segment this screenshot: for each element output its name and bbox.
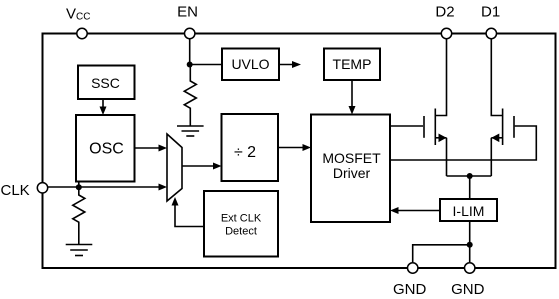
wire: junction to left GND (413, 245, 470, 262)
outer boundary box (43, 34, 556, 269)
svg-text:TEMP: TEMP (333, 56, 372, 72)
svg-text:÷ 2: ÷ 2 (234, 144, 256, 161)
svg-text:CLK: CLK (1, 182, 30, 199)
svg-text:D1: D1 (481, 3, 500, 20)
wire: OSC bottom to CLK line (78, 182, 80, 188)
block Ext CLK Detect (204, 191, 278, 257)
block TEMP (324, 49, 380, 81)
svg-text:SSC: SSC (91, 75, 120, 91)
svg-text:GND: GND (393, 281, 427, 298)
svg-text:EN: EN (177, 3, 198, 20)
block UVLO (222, 49, 279, 81)
block MOSFET Driver (311, 115, 390, 223)
svg-text:Ext CLK: Ext CLK (221, 213, 262, 225)
wire: mux output to divide-by-2 (182, 165, 219, 167)
svg-text:GND: GND (451, 281, 485, 298)
pin GND (left) (408, 263, 418, 273)
wire: sources join (447, 175, 492, 177)
svg-text:MOSFET: MOSFET (322, 150, 381, 166)
wire: Ext CLK Detect to mux (175, 200, 204, 227)
wire: junction down to I-LIM (469, 176, 471, 199)
wire: OSC to mux (135, 147, 165, 149)
wire: CLK to mux (48, 186, 164, 188)
pin D2 (441, 28, 451, 38)
block OSC (76, 115, 135, 182)
block SSC (78, 66, 135, 100)
ground G2 (below R2) (66, 245, 93, 256)
node: CLK junction (76, 184, 82, 190)
wire: I-LIM to driver arrow (394, 210, 441, 212)
block I-LIM (440, 199, 497, 221)
pin D1 (486, 28, 496, 38)
wire: EN stub down to junction (189, 39, 191, 65)
pin VCC (77, 28, 87, 38)
wire: SSC to OSC arrow (102, 99, 104, 112)
svg-text:UVLO: UVLO (231, 56, 269, 72)
wire: driver gate1 lead (390, 125, 423, 127)
wire: driver gate2 lead (to right MOSFET) (390, 126, 536, 160)
resistor R2 (CLK pulldown) (73, 187, 85, 244)
transistor Q1 (right MOSFET) (491, 39, 514, 176)
mux M1 (167, 134, 182, 201)
svg-text:D2: D2 (435, 3, 454, 20)
wire: divide-by-2 to MOSFET driver (278, 147, 308, 149)
resistor R1 (EN pulldown) (184, 65, 196, 127)
wire: TEMP down to driver (351, 80, 353, 111)
pin EN (185, 28, 195, 38)
ground G1 (below R1) (177, 126, 204, 136)
wire: I-LIM down to GND junction (469, 221, 471, 262)
svg-text:OSC: OSC (89, 141, 124, 158)
pin CLK (37, 183, 47, 193)
svg-text:I-LIM: I-LIM (453, 203, 485, 219)
node: GND junction (467, 242, 473, 248)
svg-text:Detect: Detect (225, 226, 257, 238)
wire: UVLO output arrow (279, 64, 297, 66)
node: source junction (467, 173, 473, 179)
pin GND (right) (465, 263, 475, 273)
block divide-by-2 (222, 114, 279, 181)
svg-text:Driver: Driver (333, 165, 371, 181)
transistor Q2 (left MOSFET) (424, 39, 447, 176)
wire: junction to UVLO (190, 64, 222, 66)
node: EN junction (187, 62, 193, 68)
